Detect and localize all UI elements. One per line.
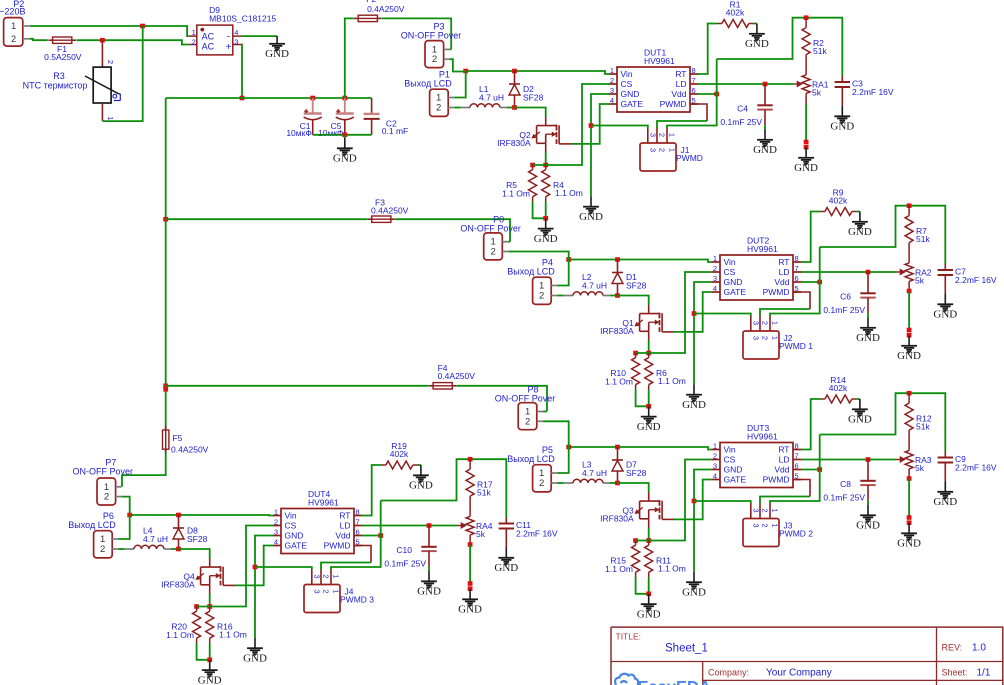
svg-text:GND: GND <box>856 332 880 344</box>
svg-text:RT: RT <box>675 69 686 79</box>
svg-text:GATE: GATE <box>724 475 747 485</box>
svg-text:Vin: Vin <box>621 69 633 79</box>
svg-text:2: 2 <box>713 451 717 460</box>
svg-text:LD: LD <box>779 267 790 277</box>
svg-text:402k: 402k <box>726 8 745 18</box>
svg-text:4: 4 <box>713 284 717 293</box>
svg-text:1.1 Om: 1.1 Om <box>605 376 633 386</box>
svg-text:2: 2 <box>610 76 614 85</box>
svg-text:LD: LD <box>676 79 687 89</box>
svg-text:PWMD: PWMD <box>763 287 790 297</box>
svg-text:1.1 Om: 1.1 Om <box>658 563 686 573</box>
svg-text:3: 3 <box>274 527 278 536</box>
svg-text:HV9961: HV9961 <box>308 498 339 508</box>
svg-text:GND: GND <box>794 162 818 174</box>
svg-text:2: 2 <box>761 523 770 527</box>
svg-text:Sheet_1: Sheet_1 <box>665 643 708 655</box>
svg-text:GND: GND <box>897 538 921 550</box>
svg-text:Vdd: Vdd <box>671 89 686 99</box>
svg-text:GND: GND <box>830 121 854 133</box>
svg-text:1.1 Om: 1.1 Om <box>166 630 194 640</box>
svg-text:2: 2 <box>100 544 105 555</box>
svg-text:-: - <box>227 31 230 42</box>
svg-text:HV9961: HV9961 <box>644 56 675 66</box>
svg-text:Выход LCD: Выход LCD <box>507 454 555 464</box>
svg-text:1/1: 1/1 <box>977 668 991 679</box>
svg-text:3: 3 <box>610 86 614 95</box>
svg-text:2: 2 <box>274 517 278 526</box>
svg-text:5k: 5k <box>915 275 925 285</box>
svg-text:0.4A250V: 0.4A250V <box>171 445 209 455</box>
svg-text:4: 4 <box>274 537 278 546</box>
svg-text:PWMD: PWMD <box>324 541 351 551</box>
svg-text:CS: CS <box>285 521 297 531</box>
svg-text:F5: F5 <box>172 433 182 443</box>
svg-text:0.4A250V: 0.4A250V <box>371 206 409 216</box>
svg-text:IRF830A: IRF830A <box>600 326 634 336</box>
svg-text:RT: RT <box>339 511 350 521</box>
svg-text:7: 7 <box>795 264 799 273</box>
svg-text:3: 3 <box>713 274 717 283</box>
svg-text:4.7 uH: 4.7 uH <box>143 534 168 544</box>
svg-text:GND: GND <box>682 399 706 411</box>
svg-text:GND: GND <box>285 531 304 541</box>
svg-text:GND: GND <box>409 480 433 492</box>
svg-text:1.1 Om: 1.1 Om <box>502 188 530 198</box>
svg-text:0.1 mF: 0.1 mF <box>382 126 408 136</box>
svg-text:2: 2 <box>713 264 717 273</box>
svg-text:1.0: 1.0 <box>972 643 986 654</box>
svg-text:ON-OFF Pover: ON-OFF Pover <box>73 467 134 477</box>
svg-text:GND: GND <box>243 653 267 665</box>
svg-text:3: 3 <box>751 508 760 512</box>
svg-text:C8: C8 <box>840 479 851 489</box>
svg-text:2: 2 <box>539 478 544 489</box>
svg-text:8: 8 <box>356 507 360 516</box>
svg-text:2.2mF 16V: 2.2mF 16V <box>516 529 558 539</box>
svg-text:Vin: Vin <box>724 445 736 455</box>
svg-text:1: 1 <box>771 336 780 340</box>
svg-text:4.7 uH: 4.7 uH <box>582 281 607 291</box>
svg-text:GND: GND <box>198 674 222 685</box>
svg-text:1: 1 <box>771 321 780 325</box>
svg-text:RT: RT <box>778 445 789 455</box>
svg-text:CS: CS <box>621 79 633 89</box>
svg-text:0.1mF 25V: 0.1mF 25V <box>823 493 865 503</box>
svg-text:EasyEDA: EasyEDA <box>638 679 711 685</box>
svg-text:SF28: SF28 <box>626 281 647 291</box>
svg-text:0.1mF 25V: 0.1mF 25V <box>720 117 762 127</box>
svg-text:1: 1 <box>668 148 677 152</box>
svg-text:6: 6 <box>795 274 799 283</box>
svg-text:8: 8 <box>795 441 799 450</box>
svg-text:GND: GND <box>848 414 872 426</box>
svg-text:0.4A250V: 0.4A250V <box>438 371 476 381</box>
svg-text:402k: 402k <box>390 449 409 459</box>
svg-text:2: 2 <box>761 321 770 325</box>
svg-text:2: 2 <box>104 492 109 503</box>
svg-text:GND: GND <box>333 153 357 165</box>
svg-text:IRF830A: IRF830A <box>497 138 531 148</box>
svg-text:6: 6 <box>692 86 696 95</box>
svg-text:ON-OFF Pover: ON-OFF Pover <box>460 223 521 233</box>
svg-text:1: 1 <box>668 133 677 137</box>
svg-text:8: 8 <box>795 254 799 263</box>
svg-text:GND: GND <box>265 48 289 60</box>
svg-text:3: 3 <box>234 38 238 47</box>
svg-text:4: 4 <box>234 28 238 37</box>
svg-text:2: 2 <box>192 38 196 47</box>
svg-text:2.2mF 16V: 2.2mF 16V <box>955 463 997 473</box>
svg-text:REV:: REV: <box>942 643 963 653</box>
svg-text:2: 2 <box>761 508 770 512</box>
svg-text:CS: CS <box>724 455 736 465</box>
svg-text:PWMD 2: PWMD 2 <box>779 529 813 539</box>
svg-text:1.1 Om: 1.1 Om <box>219 629 247 639</box>
svg-text:MB10S_C181215: MB10S_C181215 <box>209 14 276 24</box>
svg-text:1.1 Om: 1.1 Om <box>658 376 686 386</box>
svg-text:GND: GND <box>856 520 880 532</box>
svg-text:1.1 Om: 1.1 Om <box>555 188 583 198</box>
svg-text:PWMD 3: PWMD 3 <box>340 595 374 605</box>
svg-text:7: 7 <box>356 517 360 526</box>
svg-text:TITLE:: TITLE: <box>616 632 642 642</box>
svg-text:GND: GND <box>494 562 518 574</box>
svg-text:0.1mF 25V: 0.1mF 25V <box>384 559 426 569</box>
svg-text:HV9961: HV9961 <box>747 432 778 442</box>
svg-text:GND: GND <box>724 465 743 475</box>
svg-text:2: 2 <box>106 60 115 64</box>
svg-text:2: 2 <box>525 416 530 427</box>
svg-text:ON-OFF Pover: ON-OFF Pover <box>495 394 556 404</box>
svg-text:1: 1 <box>771 523 780 527</box>
svg-text:R3: R3 <box>53 71 65 81</box>
svg-text:2: 2 <box>491 247 496 258</box>
svg-text:2: 2 <box>432 54 437 65</box>
svg-text:2: 2 <box>658 133 667 137</box>
svg-text:C4: C4 <box>737 104 748 114</box>
svg-text:2: 2 <box>322 574 331 578</box>
svg-text:7: 7 <box>692 76 696 85</box>
svg-text:Vin: Vin <box>724 257 736 267</box>
svg-text:6: 6 <box>356 527 360 536</box>
svg-text:5k: 5k <box>915 463 925 473</box>
svg-text:4: 4 <box>713 471 717 480</box>
svg-text:Vdd: Vdd <box>335 531 350 541</box>
svg-text:3: 3 <box>751 321 760 325</box>
svg-text:2.2mF 16V: 2.2mF 16V <box>955 275 997 285</box>
svg-text:4.7 uH: 4.7 uH <box>582 468 607 478</box>
svg-text:Company:: Company: <box>708 668 749 678</box>
svg-text:GND: GND <box>753 144 777 156</box>
svg-text:GND: GND <box>724 277 743 287</box>
svg-text:2.2mF 16V: 2.2mF 16V <box>852 87 894 97</box>
svg-text:Vdd: Vdd <box>774 465 789 475</box>
svg-text:PWMD: PWMD <box>660 99 687 109</box>
svg-text:1: 1 <box>332 589 341 593</box>
svg-text:1.1 Om: 1.1 Om <box>605 564 633 574</box>
svg-text:1: 1 <box>713 441 717 450</box>
svg-text:GATE: GATE <box>724 287 747 297</box>
svg-text:6: 6 <box>795 461 799 470</box>
svg-text:HV9961: HV9961 <box>747 244 778 254</box>
svg-text:0.1mF 25V: 0.1mF 25V <box>823 305 865 315</box>
svg-text:2: 2 <box>761 336 770 340</box>
svg-text:C10: C10 <box>396 545 412 555</box>
svg-text:GND: GND <box>579 211 603 223</box>
svg-text:IRF830A: IRF830A <box>600 513 634 523</box>
svg-text:3: 3 <box>312 589 321 593</box>
svg-text:SF28: SF28 <box>626 468 647 478</box>
svg-text:Выход LCD: Выход LCD <box>404 79 452 89</box>
svg-text:+: + <box>226 42 232 53</box>
svg-text:GND: GND <box>682 587 706 599</box>
svg-text:GND: GND <box>848 226 872 238</box>
svg-text:LD: LD <box>340 521 351 531</box>
svg-text:GND: GND <box>933 496 957 508</box>
svg-text:Your Company: Your Company <box>766 668 832 679</box>
svg-text:PWMD 1: PWMD 1 <box>779 341 813 351</box>
svg-text:C6: C6 <box>840 292 851 302</box>
svg-text:GND: GND <box>534 233 558 245</box>
svg-text:51k: 51k <box>477 488 491 498</box>
svg-text:3: 3 <box>648 133 657 137</box>
svg-text:5k: 5k <box>812 87 822 97</box>
svg-text:51k: 51k <box>916 234 930 244</box>
svg-text:Vin: Vin <box>285 511 297 521</box>
svg-text:4.7 uH: 4.7 uH <box>479 93 504 103</box>
svg-text:3: 3 <box>751 523 760 527</box>
svg-text:402k: 402k <box>829 383 848 393</box>
svg-text:Выход LCD: Выход LCD <box>507 267 555 277</box>
svg-text:GATE: GATE <box>285 541 308 551</box>
svg-text:51k: 51k <box>916 422 930 432</box>
svg-text:4: 4 <box>610 96 614 105</box>
svg-text:1: 1 <box>771 508 780 512</box>
svg-text:1: 1 <box>11 21 16 31</box>
svg-text:2: 2 <box>539 291 544 302</box>
svg-text:10мкФ: 10мкФ <box>318 128 343 138</box>
svg-text:1: 1 <box>192 28 196 37</box>
svg-text:51k: 51k <box>813 46 827 56</box>
svg-text:PWMD: PWMD <box>676 153 703 163</box>
svg-text:2: 2 <box>436 103 441 114</box>
svg-text:2: 2 <box>11 34 16 44</box>
svg-text:3: 3 <box>312 574 321 578</box>
svg-text:GND: GND <box>897 350 921 362</box>
svg-text:SF28: SF28 <box>187 534 208 544</box>
svg-text:1: 1 <box>332 574 341 578</box>
svg-text:PWMD: PWMD <box>763 475 790 485</box>
svg-text:Sheet:: Sheet: <box>942 668 968 678</box>
svg-text:3: 3 <box>751 336 760 340</box>
svg-text:5k: 5k <box>476 529 486 539</box>
svg-text:AC: AC <box>202 41 215 51</box>
svg-text:7: 7 <box>795 451 799 460</box>
svg-text:GND: GND <box>745 38 769 50</box>
svg-text:2: 2 <box>322 589 331 593</box>
svg-text:Vdd: Vdd <box>774 277 789 287</box>
svg-text:1: 1 <box>274 507 278 516</box>
svg-text:0.5A250V: 0.5A250V <box>44 52 82 62</box>
svg-text:1: 1 <box>713 254 717 263</box>
svg-text:IRF830A: IRF830A <box>161 579 195 589</box>
svg-text:AC: AC <box>202 31 215 41</box>
svg-text:~220B: ~220B <box>0 7 25 17</box>
svg-text:10мкФ: 10мкФ <box>286 128 311 138</box>
svg-text:GND: GND <box>637 421 661 433</box>
svg-text:3: 3 <box>648 148 657 152</box>
svg-text:CS: CS <box>724 267 736 277</box>
svg-text:GND: GND <box>621 89 640 99</box>
svg-text:GND: GND <box>933 309 957 321</box>
svg-text:3: 3 <box>713 461 717 470</box>
svg-text:8: 8 <box>692 66 696 75</box>
svg-text:402k: 402k <box>829 196 848 206</box>
svg-text:SF28: SF28 <box>523 93 544 103</box>
svg-text:NTC термистор: NTC термистор <box>23 81 88 91</box>
svg-text:0.4A250V: 0.4A250V <box>367 4 405 14</box>
svg-text:1: 1 <box>610 66 614 75</box>
svg-text:2: 2 <box>658 148 667 152</box>
svg-text:1: 1 <box>106 116 115 120</box>
svg-text:Выход LCD: Выход LCD <box>68 520 116 530</box>
svg-text:GATE: GATE <box>621 99 644 109</box>
svg-text:GND: GND <box>417 586 441 598</box>
svg-text:GND: GND <box>458 604 482 616</box>
svg-text:GND: GND <box>637 608 661 620</box>
svg-text:ON-OFF Pover: ON-OFF Pover <box>401 31 462 41</box>
svg-text:RT: RT <box>778 257 789 267</box>
svg-text:LD: LD <box>779 455 790 465</box>
